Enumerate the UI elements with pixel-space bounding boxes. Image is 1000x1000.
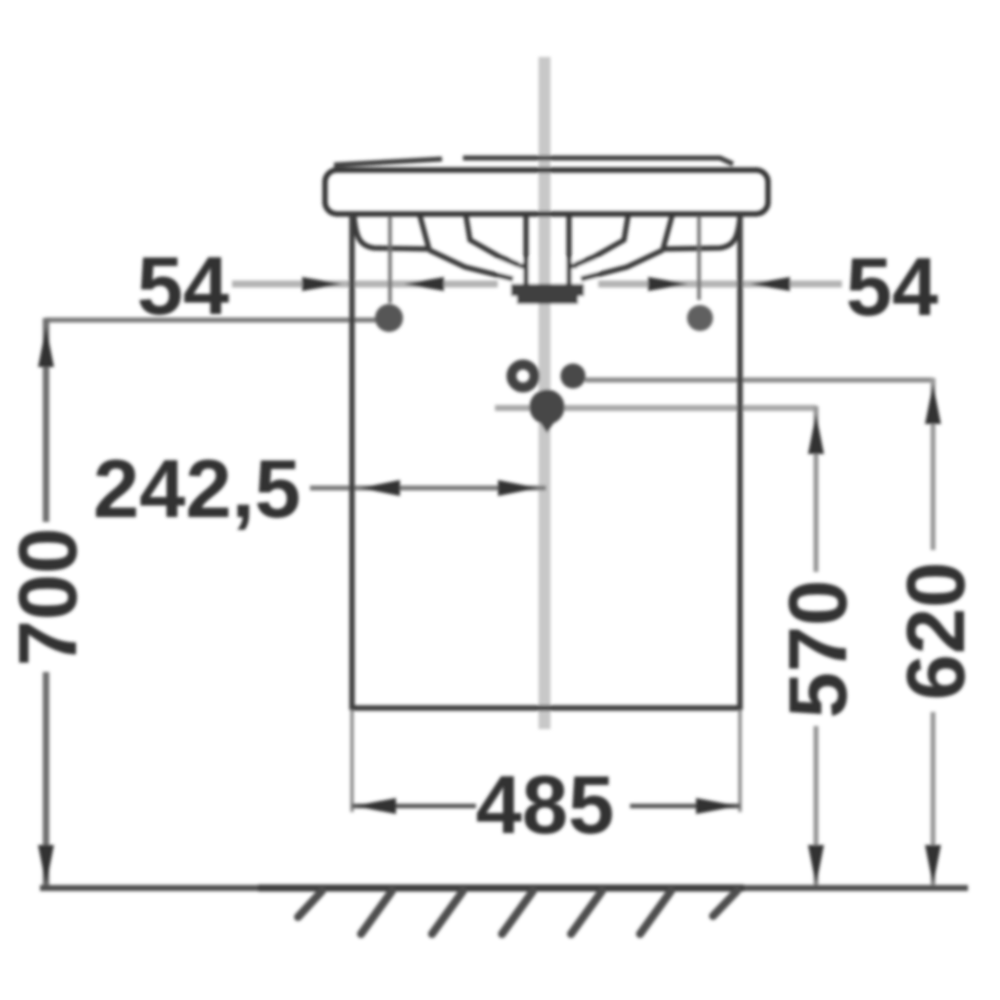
right hole extension [697, 216, 701, 300]
svg-text:54: 54 [846, 240, 938, 333]
svg-text:485: 485 [476, 758, 614, 851]
arrows [38, 277, 941, 885]
slab back rim line [334, 158, 733, 165]
leader 570 [495, 405, 816, 411]
cabinet left wall [349, 214, 355, 710]
bowl right outer curve [581, 250, 663, 279]
dim vertical 620 [931, 378, 936, 550]
washbasin slab [325, 170, 768, 214]
dim vertical 570 [814, 406, 819, 572]
242,5 pair [360, 480, 400, 496]
gray 54 dimension line [232, 281, 842, 288]
dim line 242,5 [310, 486, 546, 491]
right fixing hole [687, 305, 713, 331]
svg-text:242,5: 242,5 [93, 442, 301, 535]
bowl left outer curve [429, 250, 513, 279]
svg-text:700: 700 [1, 528, 94, 666]
leader 700 [46, 318, 380, 323]
centerline [539, 57, 551, 729]
hatching [298, 891, 737, 934]
svg-text:570: 570 [771, 580, 864, 718]
svg-text:54: 54 [137, 239, 229, 332]
bowl left inner slant [466, 216, 519, 265]
drain tube [523, 216, 528, 287]
ground line [40, 885, 968, 891]
dim vertical 700 [43, 318, 50, 522]
drain cap [511, 284, 584, 304]
leader 620 [585, 378, 933, 383]
faucet dot [561, 364, 586, 389]
570 arrows [808, 414, 824, 454]
extension lines below cabinet [350, 710, 354, 812]
54 left pair [302, 277, 342, 291]
485 dim line [352, 804, 476, 809]
centerline through tube [539, 214, 551, 310]
svg-text:620: 620 [889, 562, 982, 700]
cabinet right wall [737, 214, 743, 710]
drain blob [530, 390, 565, 425]
cabinet bottom [350, 705, 742, 711]
left fixing hole [375, 304, 403, 332]
bowl right pocket [663, 216, 740, 249]
white backing for drain cap [498, 258, 598, 308]
700 arrows [38, 327, 54, 367]
620 arrows [925, 384, 941, 424]
left hole extension [388, 216, 392, 303]
bowl left pocket [354, 216, 429, 249]
485 pair [354, 798, 396, 814]
54 right pair [648, 277, 688, 291]
faucet ring [512, 365, 535, 388]
bowl right inner slant [575, 216, 628, 265]
